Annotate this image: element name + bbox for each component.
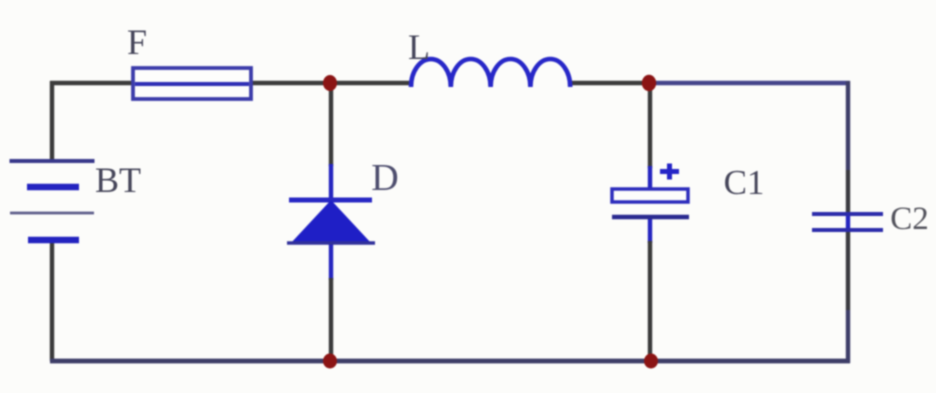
capacitor C2 xyxy=(812,214,883,230)
wire C1 top lead blue xyxy=(648,166,652,192)
wire top-left horizontal xyxy=(50,81,412,85)
wire C1 branch lower xyxy=(648,241,652,361)
node junction bottom-left xyxy=(323,354,337,369)
wire diode cathode lead blue xyxy=(329,243,333,280)
wire bottom navy xyxy=(50,359,850,364)
wire diode branch lower xyxy=(329,278,333,361)
wire diode anode lead blue xyxy=(329,164,333,202)
node junction top-left (diode tap) xyxy=(323,75,337,91)
node junction top-right (C1 tap) xyxy=(642,75,656,91)
svg-text:D: D xyxy=(371,157,398,199)
svg-text:C1: C1 xyxy=(724,163,765,202)
wire left vertical upper xyxy=(50,81,54,161)
wire right upper near C2 xyxy=(846,170,850,214)
wire top-right navy xyxy=(649,81,850,85)
svg-text:F: F xyxy=(127,22,147,62)
wire top between inductor and node B xyxy=(568,81,649,85)
wire C1 branch upper xyxy=(648,83,652,168)
node junction bottom-right xyxy=(644,354,658,369)
inductor L xyxy=(411,59,570,87)
svg-text:BT: BT xyxy=(95,160,141,200)
capacitor C1 polarized xyxy=(612,164,689,218)
battery BT xyxy=(10,161,95,240)
wire diode branch upper xyxy=(329,83,333,166)
wire right lower navy xyxy=(846,310,850,363)
svg-text:L: L xyxy=(408,27,430,67)
wire right vertical upper xyxy=(846,81,850,170)
wire right between C2 plates xyxy=(846,214,850,230)
wire right vertical lower xyxy=(846,230,850,310)
wire left vertical lower xyxy=(50,240,54,361)
svg-text:C2: C2 xyxy=(890,201,929,237)
diode D xyxy=(287,200,375,244)
wire C1 bottom lead blue xyxy=(648,216,652,243)
fuse F body xyxy=(133,68,251,99)
